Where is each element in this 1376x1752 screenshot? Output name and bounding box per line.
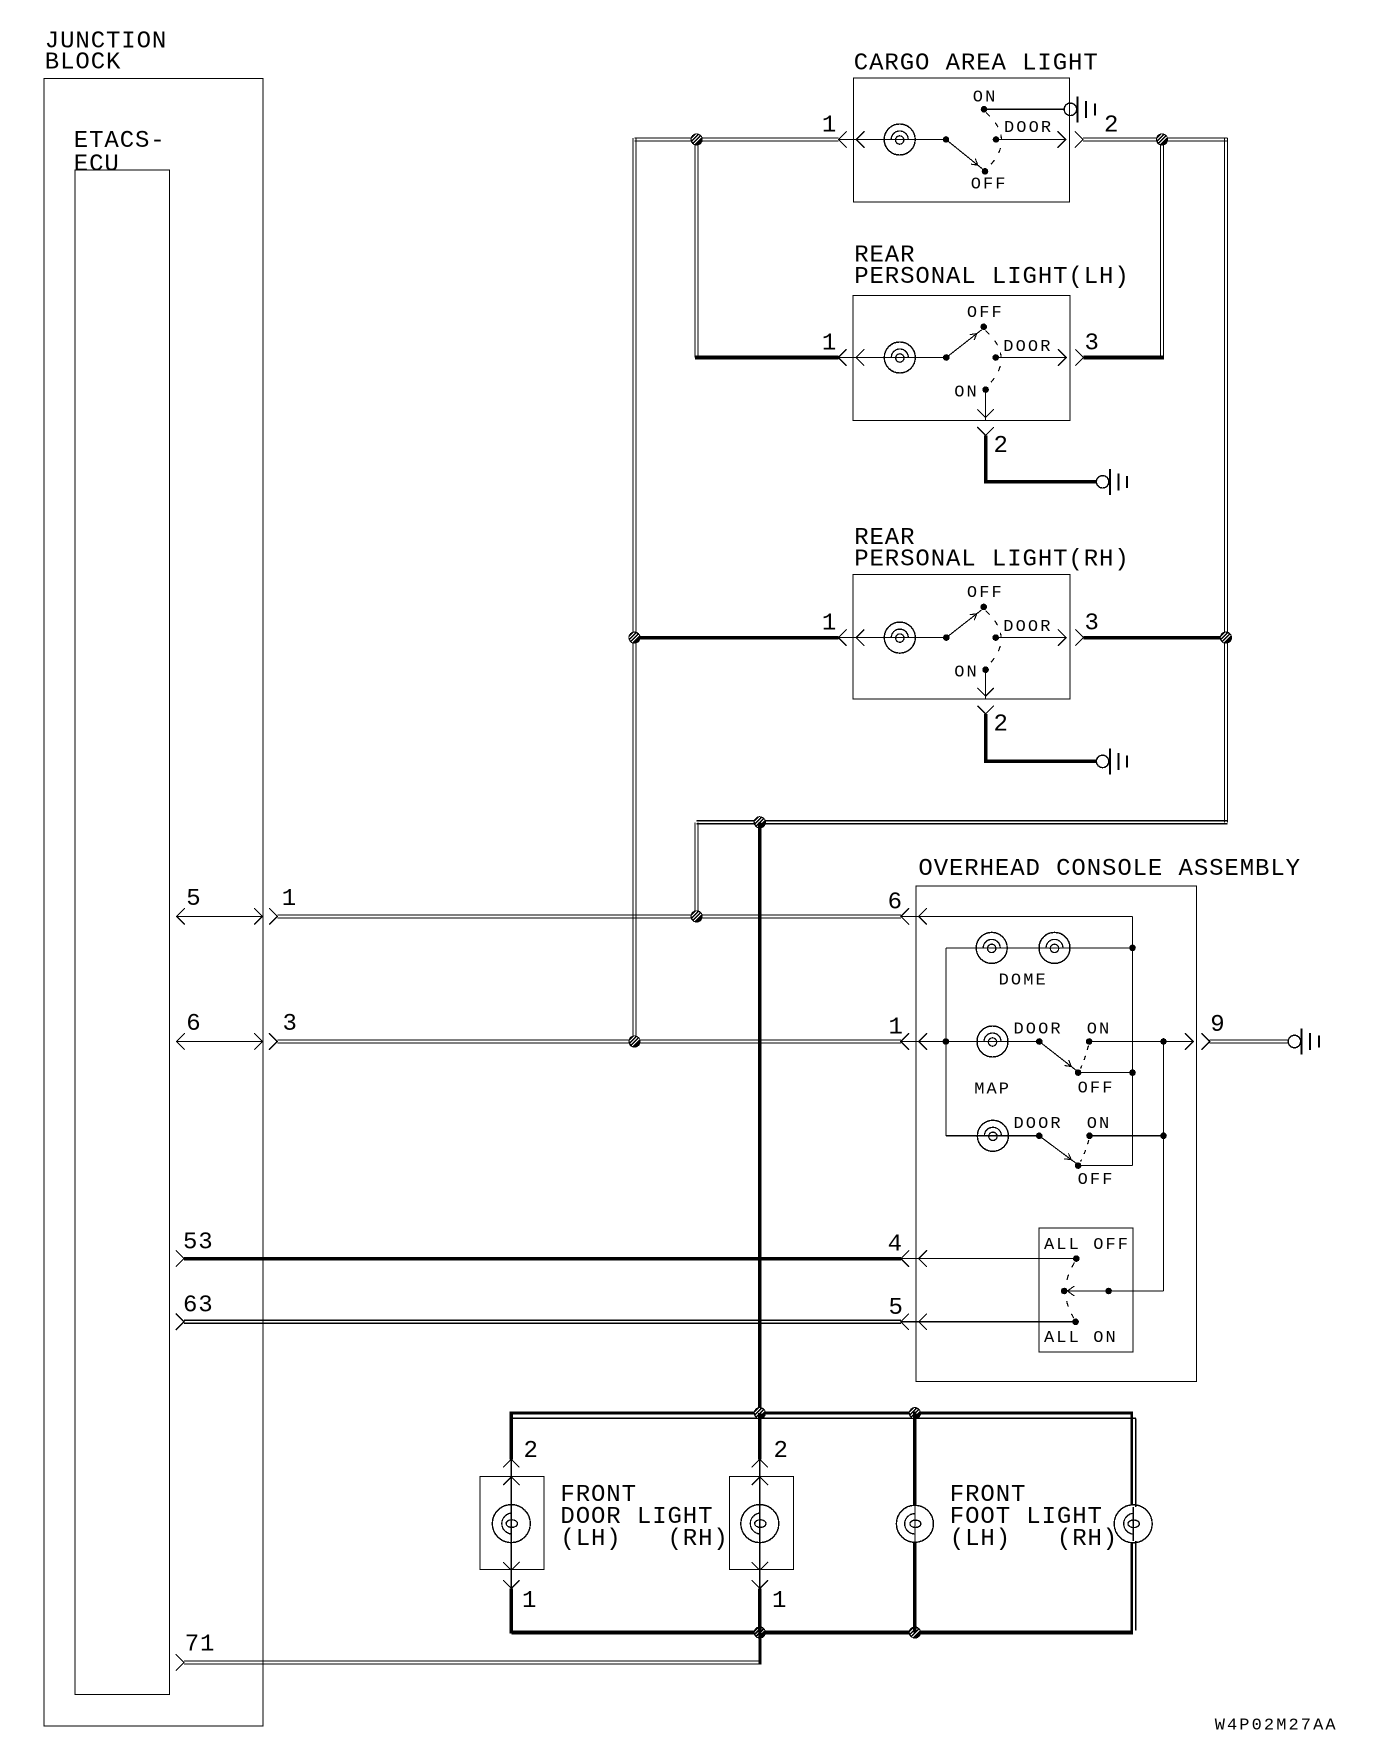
svg-text:2: 2 bbox=[774, 1438, 789, 1465]
node junction bottom bus foot-lh bbox=[909, 1626, 921, 1638]
all-switch travel arc bbox=[1066, 1263, 1075, 1319]
node pin9 branch bbox=[1160, 1038, 1167, 1045]
wire left bus vertical bbox=[633, 138, 636, 1042]
overhead console box bbox=[916, 886, 1197, 1381]
rrh switch travel arc bbox=[986, 611, 1002, 666]
wire map1 ON to pin9 bbox=[1089, 1041, 1193, 1043]
svg-text:OFF: OFF bbox=[967, 304, 1004, 323]
map2 DOOR contact bbox=[1036, 1133, 1043, 1140]
wire map2 ON line bbox=[1090, 1135, 1164, 1137]
door LH pin1 connector bbox=[503, 1562, 519, 1588]
node map1 left bbox=[943, 1038, 950, 1045]
cargo switch OFF contact bbox=[982, 168, 989, 175]
rrh switch DOOR contact bbox=[992, 634, 999, 641]
wire map2 OFF line bbox=[1078, 1165, 1132, 1167]
lamp cargo area light bbox=[884, 124, 915, 155]
wire branch v696 lower bbox=[695, 822, 698, 916]
ground overhead console bbox=[1288, 1029, 1319, 1055]
wire right bus vertical bbox=[1224, 138, 1227, 822]
wire branch v1162 bbox=[1161, 138, 1164, 359]
front door light labels bbox=[560, 1482, 728, 1553]
lamp map 2 bbox=[977, 1120, 1008, 1151]
wire pin4 to ALL OFF bbox=[901, 1258, 1077, 1260]
svg-text:ON: ON bbox=[1087, 1115, 1112, 1134]
all-switch mid contact bbox=[1105, 1288, 1112, 1295]
svg-text:DOOR: DOOR bbox=[1003, 338, 1052, 357]
lamp dome 1 bbox=[976, 932, 1007, 963]
lamp front foot RH bbox=[1114, 1505, 1152, 1543]
svg-text:(LH): (LH) bbox=[950, 1526, 1011, 1553]
svg-text:(RH): (RH) bbox=[1057, 1526, 1118, 1553]
wire rlh pin3 to branch bbox=[1084, 356, 1164, 360]
wire cargo ON to ground bbox=[984, 108, 1064, 110]
svg-text:OFF: OFF bbox=[971, 176, 1008, 195]
wire console pin6 internal bbox=[901, 916, 1133, 1165]
svg-text:71: 71 bbox=[185, 1632, 216, 1659]
cargo switch ON contact bbox=[981, 106, 988, 113]
lamp map 1 bbox=[977, 1026, 1008, 1057]
lamp rear personal LH bbox=[884, 342, 915, 373]
svg-text:2: 2 bbox=[524, 1438, 539, 1465]
rlh switch lever bbox=[946, 330, 981, 358]
svg-text:5: 5 bbox=[889, 1295, 904, 1322]
all-switch common contact bbox=[1061, 1288, 1068, 1295]
wire cargo DOOR to pin2 bbox=[996, 139, 1066, 141]
svg-text:(RH): (RH) bbox=[668, 1526, 729, 1553]
rear personal light RH title bbox=[854, 525, 1129, 574]
svg-text:2: 2 bbox=[1104, 113, 1119, 140]
wire rlh DOOR to pin3 bbox=[996, 357, 1066, 359]
wire 63 to console pin5 bbox=[184, 1320, 901, 1323]
cargo switch common contact bbox=[943, 136, 950, 143]
svg-text:OVERHEAD CONSOLE ASSEMBLY: OVERHEAD CONSOLE ASSEMBLY bbox=[918, 856, 1301, 883]
svg-text:W4P02M27AA: W4P02M27AA bbox=[1215, 1716, 1338, 1735]
front foot light labels bbox=[950, 1482, 1118, 1553]
door LH pin2 connector bbox=[503, 1459, 519, 1485]
svg-text:5: 5 bbox=[186, 886, 201, 913]
cargo switch DOOR contact bbox=[993, 136, 1000, 143]
wire rlh ON drop internal bbox=[985, 390, 987, 421]
svg-text:PERSONAL LIGHT(LH): PERSONAL LIGHT(LH) bbox=[854, 264, 1129, 291]
rrh switch OFF contact bbox=[980, 604, 987, 611]
svg-text:9: 9 bbox=[1210, 1012, 1225, 1039]
wire cargo internal lamp line bbox=[839, 139, 947, 141]
svg-text:ON: ON bbox=[973, 89, 998, 108]
svg-text:DOOR: DOOR bbox=[1014, 1115, 1063, 1134]
cargo switch lever bbox=[946, 140, 983, 170]
svg-text:OFF: OFF bbox=[1078, 1171, 1115, 1190]
svg-text:1: 1 bbox=[822, 331, 837, 358]
node junction top bus foot-lh bbox=[909, 1407, 921, 1419]
svg-text:3: 3 bbox=[283, 1011, 298, 1038]
console pin5 connector bbox=[901, 1314, 927, 1330]
rlh switch travel arc bbox=[986, 331, 1002, 386]
wire y822 horizontal bbox=[697, 821, 1228, 824]
wire door RH internal bbox=[759, 1477, 761, 1570]
svg-text:3: 3 bbox=[1085, 611, 1100, 638]
svg-text:ALL ON: ALL ON bbox=[1044, 1329, 1118, 1348]
junction block label bbox=[45, 29, 167, 77]
svg-text:OFF: OFF bbox=[1078, 1080, 1115, 1099]
node junction top bus heavy bbox=[754, 1407, 766, 1419]
wire 71 to front lights bbox=[184, 1633, 761, 1664]
console pin9 connector bbox=[1185, 1033, 1210, 1049]
svg-text:1: 1 bbox=[822, 611, 837, 638]
ALL ON contact bbox=[1072, 1319, 1079, 1326]
wire rlh internal lamp line bbox=[838, 357, 946, 359]
svg-text:1: 1 bbox=[822, 113, 837, 140]
wire rrh pin2 to ground bbox=[984, 714, 1096, 762]
rrh pin3 connector bbox=[1058, 629, 1084, 645]
ALL OFF contact bbox=[1073, 1255, 1080, 1262]
lamp dome 2 bbox=[1039, 932, 1070, 963]
svg-text:DOOR: DOOR bbox=[1004, 119, 1053, 138]
cargo area light box bbox=[853, 78, 1069, 202]
console pin1 connector bbox=[901, 1033, 927, 1049]
svg-text:PERSONAL LIGHT(RH): PERSONAL LIGHT(RH) bbox=[854, 547, 1129, 574]
node junction bottom bus rh-71 bbox=[754, 1626, 766, 1638]
lamp front door LH bbox=[492, 1505, 530, 1543]
node junction cargo pin2 branch bbox=[1156, 133, 1168, 145]
svg-text:ON: ON bbox=[954, 384, 979, 403]
map1 switch lever bbox=[1039, 1042, 1076, 1071]
wire rrh ON drop internal bbox=[985, 670, 987, 699]
map2 travel arc bbox=[1081, 1140, 1089, 1162]
svg-text:OFF: OFF bbox=[967, 584, 1004, 603]
map1 DOOR contact bbox=[1036, 1038, 1043, 1045]
svg-text:DOME: DOME bbox=[999, 972, 1048, 991]
door RH pin1 connector bbox=[752, 1562, 768, 1588]
svg-text:BLOCK: BLOCK bbox=[45, 50, 122, 77]
ETACS pin63 arrow bbox=[176, 1314, 184, 1330]
rrh switch lever bbox=[946, 610, 981, 638]
wire map1 OFF line bbox=[1078, 1072, 1132, 1074]
node junction wire5-1 branch bbox=[691, 910, 703, 922]
svg-text:1: 1 bbox=[522, 1588, 537, 1615]
wire branch v696 upper bbox=[695, 138, 698, 358]
cargo pin1 connector bbox=[839, 131, 865, 147]
rlh switch OFF contact bbox=[980, 324, 987, 331]
svg-text:MAP: MAP bbox=[974, 1081, 1011, 1100]
wire map1 lamp line bbox=[901, 1041, 1040, 1043]
lamp front door RH bbox=[741, 1505, 779, 1543]
wire rrh pin1 feed bbox=[635, 636, 839, 640]
lamp rear personal RH bbox=[884, 622, 915, 653]
cargo switch travel arc bbox=[986, 113, 1002, 168]
rear personal light LH title bbox=[854, 242, 1129, 291]
ETACS pin6 arrow bbox=[177, 1033, 185, 1049]
ETACS pin5 arrow bbox=[177, 908, 185, 924]
svg-text:1: 1 bbox=[282, 886, 297, 913]
svg-text:2: 2 bbox=[994, 433, 1009, 460]
rrh pin1 connector bbox=[838, 629, 864, 645]
wire rrh internal lamp line bbox=[838, 637, 946, 639]
ETACS-ECU label bbox=[74, 128, 166, 179]
lamp front foot LH bbox=[896, 1505, 933, 1542]
svg-text:6: 6 bbox=[888, 889, 903, 916]
node v1163 map2 bbox=[1160, 1133, 1167, 1140]
wire cargo pin2 to right bus bbox=[1083, 138, 1227, 141]
rlh pin2 connector bbox=[977, 409, 993, 435]
wire dome lamp line bbox=[946, 947, 1133, 949]
map1 OFF contact bbox=[1075, 1069, 1082, 1076]
map2 OFF contact bbox=[1075, 1162, 1082, 1169]
node junction y822 heavy branch bbox=[754, 816, 766, 828]
wire v1163 to all-switch bbox=[1064, 1042, 1163, 1292]
wire front bottom bus bbox=[511, 1630, 1133, 1634]
rrh switch common contact bbox=[943, 634, 950, 641]
node junction right bus rrh bbox=[1220, 632, 1232, 644]
front door light RH box bbox=[729, 1477, 793, 1570]
wire door RH upper stub bbox=[758, 1413, 762, 1477]
wire pin5 to ALL ON bbox=[901, 1321, 1076, 1323]
wire JB3 to console pin1 bbox=[277, 1040, 901, 1043]
all-switch box bbox=[1039, 1228, 1133, 1352]
svg-text:2: 2 bbox=[994, 712, 1009, 739]
svg-text:1: 1 bbox=[889, 1015, 904, 1042]
svg-text:DOOR: DOOR bbox=[1003, 618, 1052, 637]
ground rear personal RH bbox=[1096, 748, 1127, 774]
svg-text:(LH): (LH) bbox=[560, 1526, 621, 1553]
wire foot RH lamp line bbox=[1132, 1507, 1134, 1541]
wire rlh pin1 feed bbox=[695, 356, 839, 360]
wire front top bus bbox=[511, 1413, 1136, 1418]
wire heavy vertical to front lights bbox=[758, 822, 762, 1413]
svg-text:4: 4 bbox=[888, 1232, 903, 1259]
svg-text:DOOR: DOOR bbox=[1014, 1021, 1063, 1040]
wire console inner-left vertical bbox=[945, 948, 947, 1136]
map2 switch lever bbox=[1039, 1136, 1076, 1163]
map2 ON contact bbox=[1086, 1133, 1093, 1140]
wire front right vertical bbox=[1132, 1413, 1136, 1632]
svg-text:ALL OFF: ALL OFF bbox=[1044, 1236, 1130, 1255]
svg-text:CARGO AREA LIGHT: CARGO AREA LIGHT bbox=[854, 51, 1099, 78]
svg-text:1: 1 bbox=[772, 1588, 787, 1615]
ground rear personal LH bbox=[1096, 469, 1127, 495]
rlh switch common contact bbox=[943, 354, 950, 361]
wire foot LH vertical bbox=[913, 1412, 917, 1633]
ETACS pin71 arrow bbox=[176, 1654, 184, 1670]
rlh pin3 connector bbox=[1058, 349, 1084, 365]
wire 53 to console pin4 bbox=[184, 1257, 901, 1261]
wire map2 lamp line bbox=[946, 1135, 1039, 1137]
JB pin1 connector bbox=[254, 908, 277, 924]
node dome line right bbox=[1129, 945, 1136, 952]
svg-text:53: 53 bbox=[183, 1230, 214, 1257]
rlh pin1 connector bbox=[838, 349, 864, 365]
JB pin3 connector bbox=[254, 1033, 277, 1049]
svg-text:63: 63 bbox=[183, 1293, 214, 1320]
wire ETACS pin5 to JB edge bbox=[177, 915, 263, 917]
node junction cargo pin1 branch bbox=[691, 133, 703, 145]
ETACS-ECU box bbox=[75, 170, 170, 1694]
rear personal light RH box bbox=[853, 574, 1070, 699]
node map1 off right bbox=[1129, 1069, 1136, 1076]
rlh switch ON contact bbox=[982, 386, 989, 393]
door RH pin2 connector bbox=[752, 1459, 768, 1485]
svg-text:ECU: ECU bbox=[74, 152, 120, 179]
svg-text:6: 6 bbox=[186, 1011, 201, 1038]
wire door RH lower stub bbox=[759, 1570, 761, 1633]
wire rlh pin2 to ground bbox=[984, 435, 1096, 482]
cargo pin2 connector bbox=[1058, 131, 1084, 147]
ETACS pin53 arrow bbox=[176, 1250, 184, 1266]
svg-text:ON: ON bbox=[954, 664, 979, 683]
wire door LH internal bbox=[510, 1477, 512, 1570]
all-switch lever arrowhead bbox=[1067, 1286, 1074, 1296]
wire rrh DOOR to pin3 bbox=[996, 637, 1066, 639]
junction block box bbox=[44, 78, 263, 1726]
rear personal light LH box bbox=[853, 296, 1070, 421]
wire rrh pin3 to right bus bbox=[1084, 636, 1226, 640]
svg-text:ON: ON bbox=[1087, 1021, 1112, 1040]
rlh switch DOOR contact bbox=[992, 354, 999, 361]
rrh switch ON contact bbox=[982, 666, 989, 673]
wire pin9 to ground bbox=[1210, 1040, 1288, 1043]
node junction left bus rrh bbox=[628, 632, 640, 644]
console pin6 connector bbox=[901, 908, 927, 924]
map1 travel arc bbox=[1081, 1046, 1089, 1069]
console pin4 connector bbox=[901, 1250, 927, 1266]
wire door LH upper stub bbox=[509, 1412, 513, 1477]
wire ETACS pin6 to JB edge bbox=[177, 1041, 263, 1043]
node junction left bus wire6-3 bbox=[628, 1035, 640, 1047]
map1 ON contact bbox=[1086, 1038, 1093, 1045]
wire JB1 to console pin6 bbox=[277, 915, 901, 918]
wire cargo pin1 feed bbox=[635, 138, 839, 141]
svg-text:3: 3 bbox=[1085, 331, 1100, 358]
front door light LH box bbox=[480, 1477, 544, 1570]
wire door LH lower stub bbox=[510, 1570, 512, 1634]
ground cargo area light bbox=[1064, 96, 1095, 122]
rrh pin2 connector bbox=[977, 688, 993, 714]
